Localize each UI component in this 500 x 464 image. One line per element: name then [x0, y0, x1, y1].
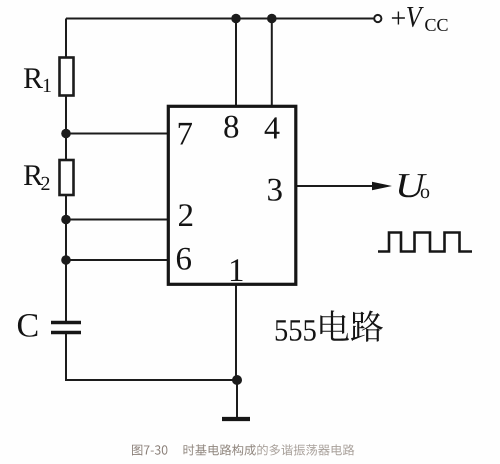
wire left rail top segment [65, 19, 67, 59]
label C [18, 314, 37, 337]
pin 4 label [265, 117, 280, 138]
wire pin 8 up [235, 19, 237, 107]
label Vcc CC subscript [425, 19, 447, 31]
ground [222, 417, 250, 421]
op-amp U1 555 IC body [168, 106, 295, 284]
wire node D to ground [236, 380, 238, 417]
label Vcc V [407, 7, 424, 27]
wire bottom rail [66, 379, 237, 381]
wire top rail [66, 18, 374, 20]
label R2 subscript 2 [41, 177, 49, 190]
caption text part 2 [257, 444, 354, 456]
node A junction dot [61, 129, 71, 139]
output arrowhead [372, 182, 392, 191]
wire R2 to capacitor [65, 195, 67, 322]
label dianlu CJK [320, 310, 383, 341]
wire pin 3 output [296, 185, 376, 187]
wire pin 4 up [271, 19, 273, 107]
wire R1 to R2 [65, 96, 67, 161]
node pin4 top junction dot [267, 14, 277, 24]
wire node A to pin 7 [66, 133, 168, 135]
label R1 subscript 1 [44, 79, 51, 92]
wire node B to pin 2 [66, 219, 168, 221]
pin 3 label [268, 179, 282, 201]
node pin8 top junction dot [231, 14, 241, 24]
caption figure number [132, 445, 167, 456]
caption text part 1 [184, 444, 256, 455]
node D junction dot [232, 375, 242, 385]
label Uo U [399, 174, 427, 197]
pin 1 label [231, 259, 243, 281]
node B junction dot [61, 215, 71, 225]
resistor R1 [60, 58, 74, 96]
pin 2 label [179, 204, 192, 226]
label 555 [276, 320, 316, 341]
terminal +Vcc circle [374, 15, 381, 22]
pin 6 label [177, 248, 191, 270]
resistor R2 [60, 160, 74, 195]
wire capacitor to bottom rail [65, 333, 67, 382]
label R1 R [24, 68, 43, 88]
pin 7 label [179, 123, 192, 145]
label Uo subscript o [421, 189, 429, 199]
label + [392, 12, 405, 25]
label R2 R [24, 165, 43, 185]
wire node C to pin 6 [66, 259, 168, 261]
square wave symbol [378, 233, 472, 252]
wire pin 1 down [235, 285, 237, 381]
capacitor C plates [51, 323, 81, 333]
pin 8 label [224, 116, 238, 138]
node C junction dot [61, 255, 71, 265]
